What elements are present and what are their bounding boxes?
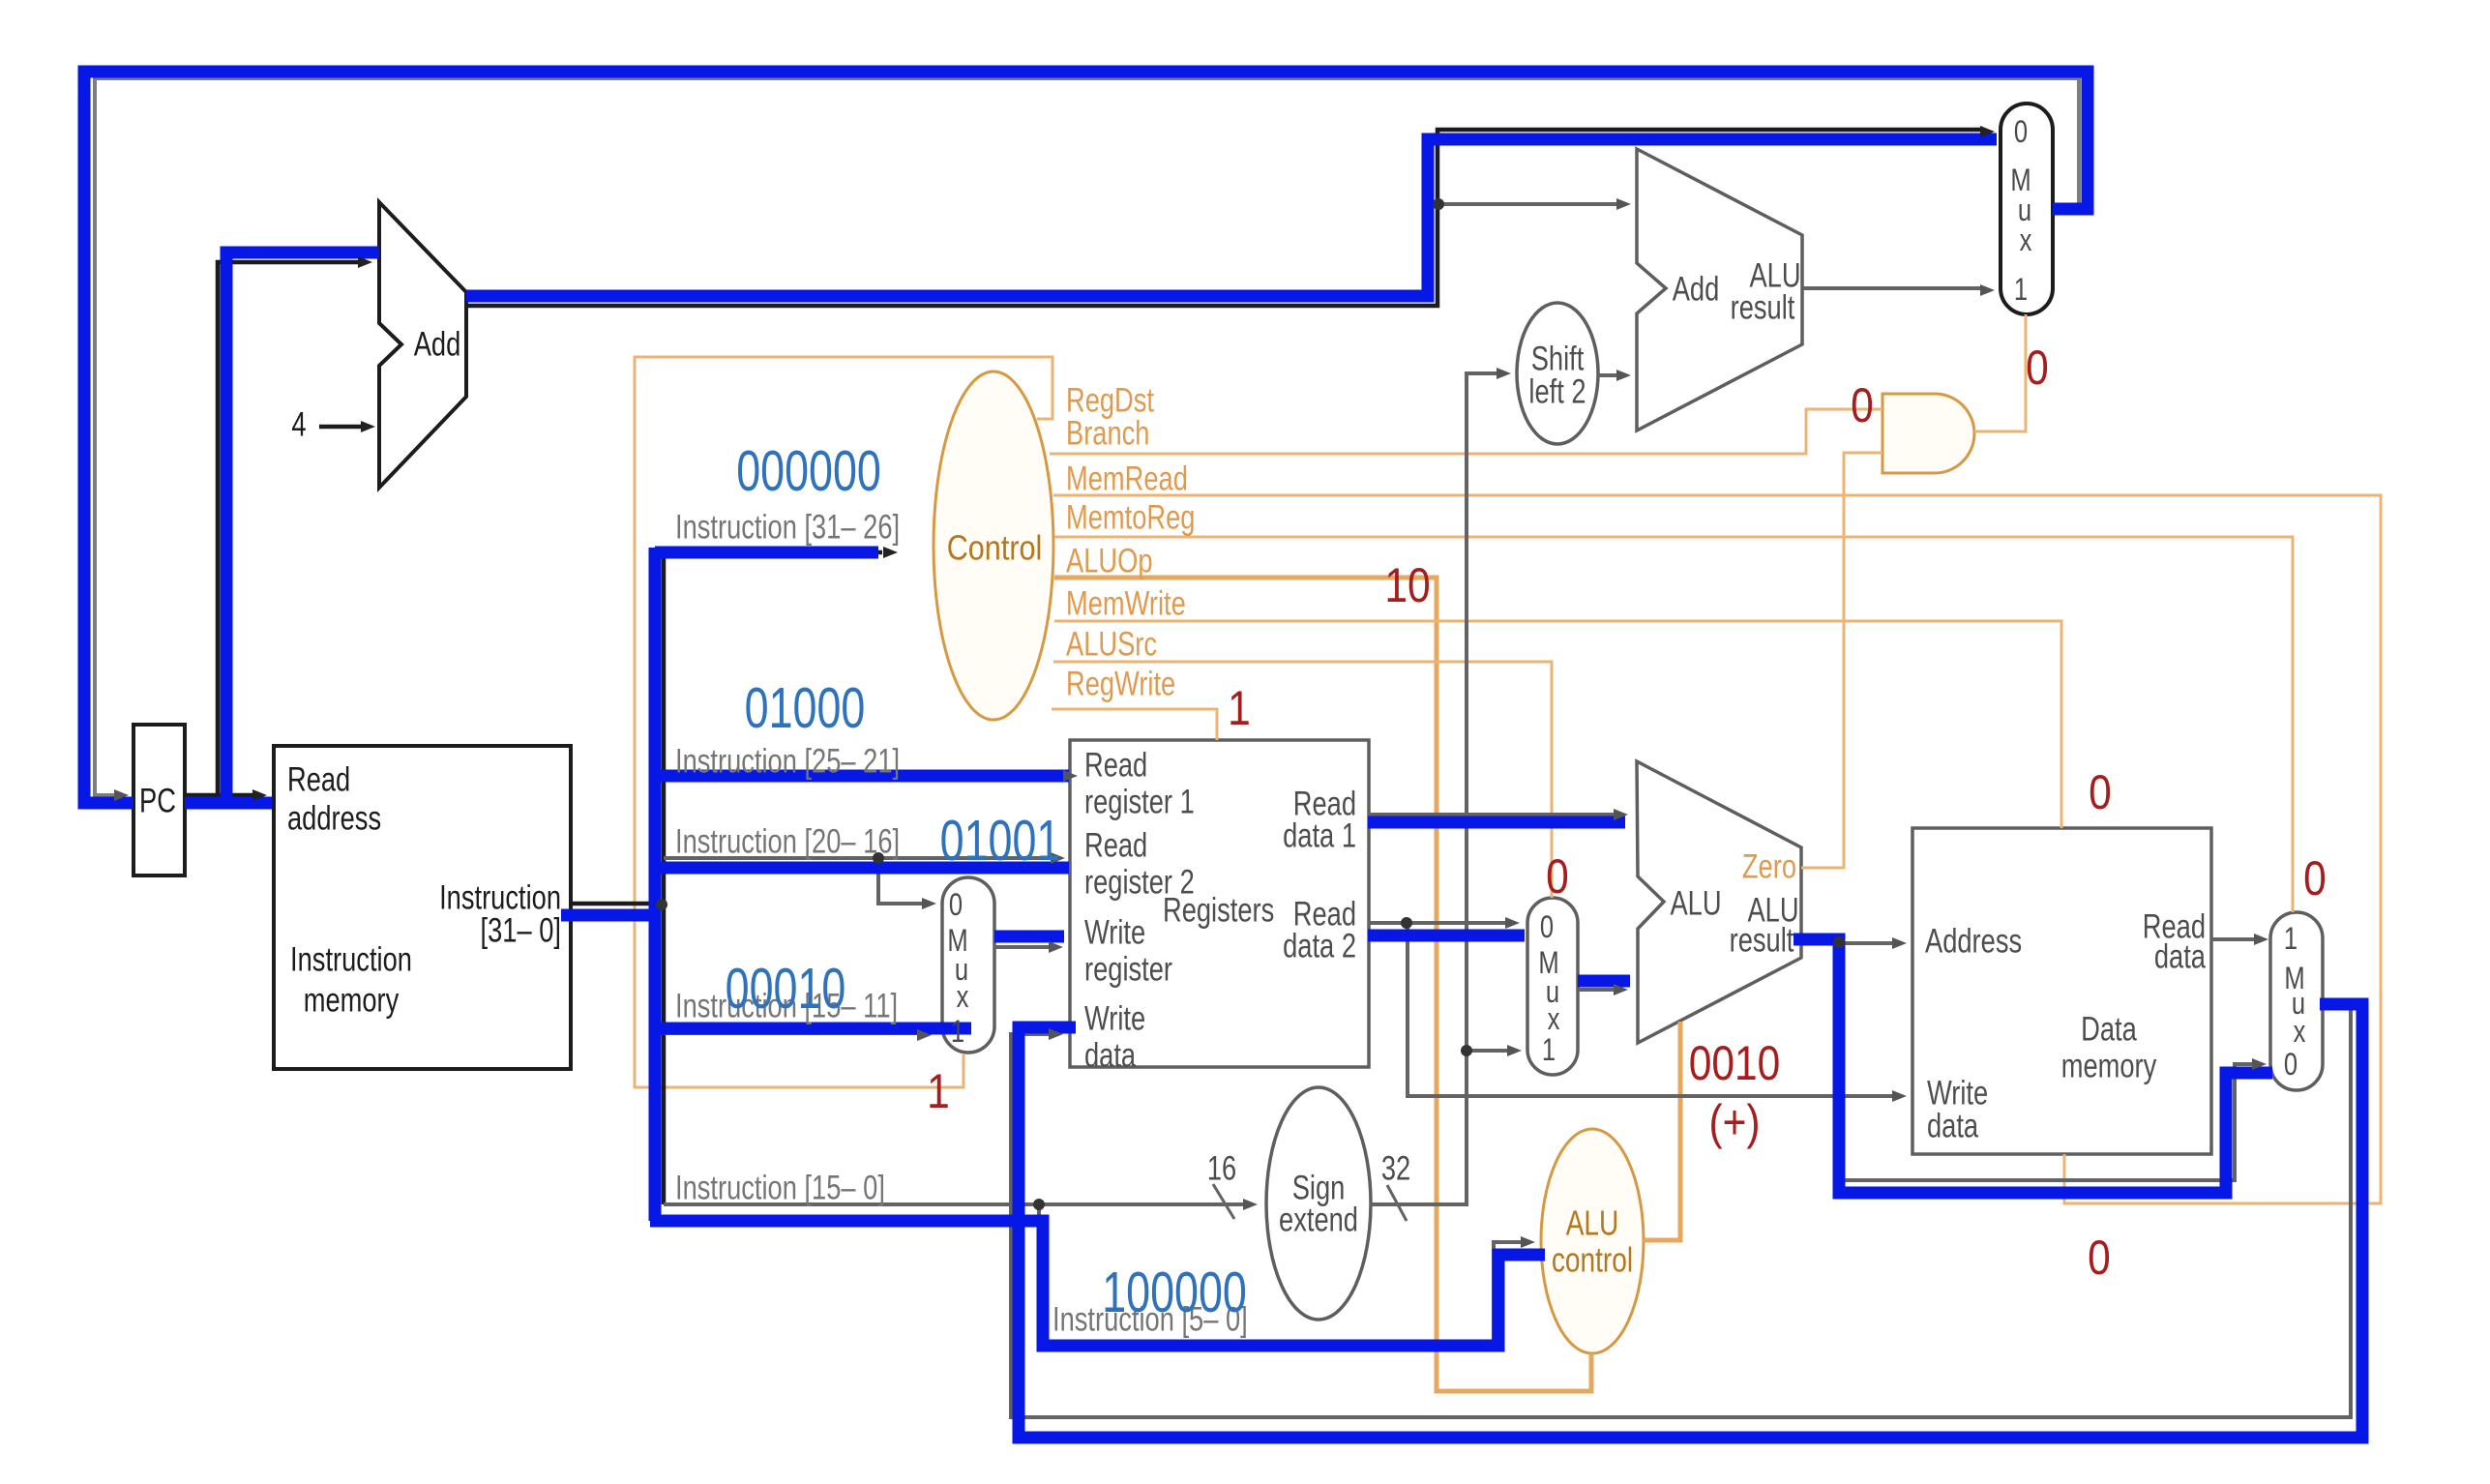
svg-text:MemtoReg: MemtoReg — [1066, 498, 1195, 536]
wire ALUSrc control signal — [1053, 662, 1552, 898]
svg-text:address: address — [287, 799, 381, 837]
wire RegDst control signal — [635, 357, 1052, 1087]
svg-text:memory: memory — [304, 981, 400, 1019]
svg-text:100000: 100000 — [1102, 1261, 1247, 1324]
mux PCSrc — [2001, 104, 2053, 314]
wire MemWrite control signal — [1054, 621, 2061, 828]
svg-text:Add: Add — [1673, 270, 1720, 308]
control unit Control — [934, 371, 1053, 720]
wire ALU control output to ALU — [1644, 1022, 1680, 1240]
svg-text:[31– 0]: [31– 0] — [481, 911, 561, 949]
wire highlighted Instruction[15-11] to mux RegDst input 1 — [650, 1023, 971, 1035]
wire Read data 2 branch to Write data of data memory — [1408, 923, 1893, 1096]
wire mux ALUSrc output to ALU — [1578, 988, 1615, 992]
svg-text:memory: memory — [2061, 1047, 2157, 1084]
svg-text:Read: Read — [1084, 826, 1147, 864]
svg-text:1: 1 — [1228, 681, 1251, 735]
wire highlighted mux RegDst output to Write register — [994, 931, 1064, 943]
wire highlighted Read data 2 to mux ALUSrc input 0 — [1368, 930, 1525, 942]
wire MemRead control signal — [1053, 495, 2381, 1203]
wire branch adder output to mux PCSrc input 1 — [1802, 286, 1981, 290]
junction Instruction[20-16] — [873, 852, 884, 864]
ALU main — [1637, 761, 1801, 1043]
svg-text:Instruction [31– 26]: Instruction [31– 26] — [675, 508, 900, 546]
sign extender — [1266, 1087, 1371, 1320]
junction instruction bus — [656, 899, 667, 910]
svg-text:10: 10 — [1384, 558, 1430, 612]
svg-text:data: data — [2154, 937, 2207, 975]
register file Registers — [1070, 740, 1369, 1067]
svg-text:1: 1 — [2014, 273, 2028, 307]
wire instruction bus vertical — [662, 552, 667, 1204]
wire RegWrite control signal — [1052, 709, 1217, 740]
svg-text:MemRead: MemRead — [1066, 460, 1188, 497]
svg-text:32: 32 — [1381, 1149, 1410, 1187]
adder Add (PC+4) — [379, 202, 466, 488]
svg-text:Address: Address — [1925, 922, 2022, 960]
svg-text:4: 4 — [291, 405, 306, 443]
wire mux MemtoReg output write-back to registers — [1011, 1001, 2351, 1417]
junction Read data 2 — [1401, 917, 1412, 929]
wire Instruction[31-26] to Control — [664, 550, 882, 555]
svg-text:data 2: data 2 — [1283, 927, 1356, 965]
wire Instruction[20-16] to Read register 2 — [664, 856, 1052, 860]
svg-text:1: 1 — [2284, 922, 2297, 956]
shifter Shift left 2 — [1517, 303, 1598, 444]
junction PC+4 to branch adder — [1433, 198, 1444, 210]
wire highlighted PC output to Read address — [185, 797, 272, 810]
wire Instruction[15-0] to sign extend — [664, 1202, 1244, 1206]
svg-text:Instruction [25– 21]: Instruction [25– 21] — [675, 742, 900, 780]
svg-text:Read: Read — [287, 760, 350, 798]
wire highlighted mux ALUSrc output to ALU — [1578, 975, 1630, 988]
svg-text:Instruction [15– 0]: Instruction [15– 0] — [675, 1169, 885, 1206]
svg-text:Zero: Zero — [1742, 847, 1796, 885]
svg-text:01000: 01000 — [745, 677, 866, 740]
wire MemtoReg control signal — [1054, 537, 2293, 912]
wire ALU result branch to mux MemtoReg input 0 — [1843, 943, 2253, 1180]
wire mux PCSrc output loop to PC — [95, 78, 2079, 795]
bit-width slash 32 — [1387, 1185, 1407, 1221]
wire PC value up to Add — [218, 262, 359, 795]
svg-text:register: register — [1084, 950, 1172, 988]
wire PC+4 branch to branch adder — [1438, 202, 1617, 206]
svg-text:Registers: Registers — [1163, 891, 1274, 929]
svg-text:Instruction [20– 16]: Instruction [20– 16] — [675, 822, 900, 860]
svg-text:0: 0 — [2284, 1048, 2297, 1082]
svg-text:0: 0 — [2089, 765, 2112, 819]
svg-text:Instruction: Instruction — [290, 940, 412, 978]
svg-text:Read: Read — [1084, 746, 1147, 784]
svg-text:x: x — [2294, 1015, 2306, 1049]
svg-text:Write: Write — [1084, 999, 1145, 1037]
ALU control unit — [1541, 1129, 1644, 1353]
svg-text:0010: 0010 — [1689, 1036, 1781, 1090]
svg-text:0: 0 — [2026, 341, 2049, 395]
wire highlighted PC+4 to mux PCSrc input 0 — [466, 139, 1997, 296]
wire Read data 1 to ALU — [1368, 813, 1615, 816]
svg-text:data 1: data 1 — [1283, 816, 1356, 854]
svg-text:x: x — [1548, 1002, 1560, 1036]
svg-text:MemWrite: MemWrite — [1066, 584, 1186, 622]
bit-width slash 16 — [1213, 1184, 1234, 1219]
wire highlighted Instruction[31-26] to Control — [655, 547, 878, 559]
svg-text:x: x — [957, 980, 969, 1014]
svg-text:0: 0 — [2303, 851, 2327, 905]
svg-text:result: result — [1730, 921, 1794, 959]
svg-text:ALU: ALU — [1566, 1203, 1619, 1242]
svg-text:1: 1 — [927, 1064, 950, 1118]
svg-text:ALUSrc: ALUSrc — [1066, 625, 1157, 663]
wire instruction memory output — [571, 902, 664, 906]
svg-text:extend: extend — [1279, 1201, 1358, 1238]
wire highlighted ALU result to mux MemtoReg input 0 — [1793, 939, 2272, 1193]
arrowheads — [114, 789, 129, 801]
svg-text:0: 0 — [2088, 1231, 2111, 1285]
svg-text:000000: 000000 — [736, 440, 881, 503]
data memory — [1912, 828, 2211, 1154]
svg-text:data: data — [1927, 1107, 1979, 1144]
AND gate (branch) — [1882, 394, 1974, 473]
wire data memory Read data to mux MemtoReg input 1 — [2211, 937, 2255, 941]
svg-text:ALUOp: ALUOp — [1066, 542, 1152, 579]
svg-text:0: 0 — [1546, 849, 1569, 904]
svg-text:left 2: left 2 — [1528, 372, 1586, 410]
wire Instruction[5-0] to ALU control — [1039, 1204, 1522, 1346]
svg-text:Add: Add — [414, 325, 461, 363]
svg-text:RegWrite: RegWrite — [1066, 665, 1175, 702]
svg-text:data: data — [1084, 1036, 1137, 1074]
wire Branch control signal — [1050, 409, 1882, 454]
svg-text:(+): (+) — [1708, 1095, 1760, 1149]
svg-text:1: 1 — [1542, 1033, 1556, 1067]
wire highlighted PC value up to Add — [226, 252, 379, 803]
wire Read data 2 to mux ALUSrc input 0 — [1368, 921, 1506, 925]
wire Zero flag to AND gate — [1801, 453, 1882, 868]
mux ALUSrc — [1527, 898, 1578, 1075]
wire shift left 2 output to branch adder — [1598, 373, 1617, 377]
svg-text:01001: 01001 — [940, 810, 1061, 873]
wire Instruction[25-21] to Read register 1 — [664, 774, 1064, 778]
wire PC to instruction memory — [185, 793, 253, 798]
wire highlighted mux MemtoReg output write-back — [1019, 1004, 2362, 1438]
wire mux RegDst output to Write register — [994, 945, 1050, 949]
wire ALUOp control signal — [1054, 578, 1591, 1391]
wire highlighted Read data 1 to ALU — [1368, 816, 1625, 829]
svg-text:00010: 00010 — [726, 958, 846, 1021]
wire highlighted instruction output — [561, 909, 661, 922]
adder Add (branch target) — [1637, 149, 1802, 430]
svg-text:control: control — [1552, 1240, 1633, 1279]
svg-text:PC: PC — [139, 782, 176, 819]
svg-text:register 1: register 1 — [1084, 783, 1195, 820]
svg-text:0: 0 — [2014, 115, 2028, 149]
wire highlighted Instruction[25-21] to Read register 1 — [655, 770, 1069, 783]
svg-text:Branch: Branch — [1066, 414, 1149, 452]
svg-text:x: x — [2020, 223, 2032, 257]
svg-text:0: 0 — [949, 888, 963, 922]
svg-text:0: 0 — [1540, 910, 1554, 944]
wire constant 4 to Add — [319, 425, 362, 430]
wire Instruction[20-16] branch to mux RegDst input 0 — [878, 858, 923, 904]
svg-text:1: 1 — [951, 1015, 964, 1049]
instruction memory — [274, 746, 571, 1069]
svg-text:Write: Write — [1084, 913, 1145, 951]
wire Add output PC+4 to mux PCSrc input 0 — [466, 130, 1981, 306]
mux RegDst — [942, 877, 994, 1053]
junction Instruction[15-0] — [1033, 1199, 1045, 1210]
wire highlighted instruction bus vertical — [649, 548, 662, 1221]
svg-text:ALU: ALU — [1670, 884, 1721, 922]
junction sign extend branch — [1461, 1045, 1472, 1056]
wire ALU result to Address — [1801, 941, 1893, 945]
junction ALU result — [1833, 936, 1845, 948]
wire Instruction[15-11] to mux RegDst input 1 — [664, 1031, 918, 1035]
wire sign extend branch to mux ALUSrc input 1 — [1467, 1049, 1508, 1053]
wire highlighted Instruction[20-16] to Read register 2 — [655, 862, 1069, 875]
svg-text:result: result — [1731, 288, 1795, 326]
mux MemtoReg — [2270, 912, 2323, 1090]
register PC — [133, 725, 185, 876]
svg-text:Data: Data — [2081, 1010, 2137, 1048]
svg-text:0: 0 — [1851, 378, 1874, 432]
wire highlighted Instruction[5-0] to ALU control — [650, 1221, 1545, 1346]
wire AND gate output to mux PCSrc select — [1974, 314, 2026, 431]
svg-text:16: 16 — [1207, 1149, 1236, 1187]
wire sign extend output up to shift left 2 — [1370, 373, 1497, 1204]
wire highlighted PC loop from mux PCSrc to PC — [84, 72, 2088, 803]
svg-text:Control: Control — [947, 529, 1043, 568]
